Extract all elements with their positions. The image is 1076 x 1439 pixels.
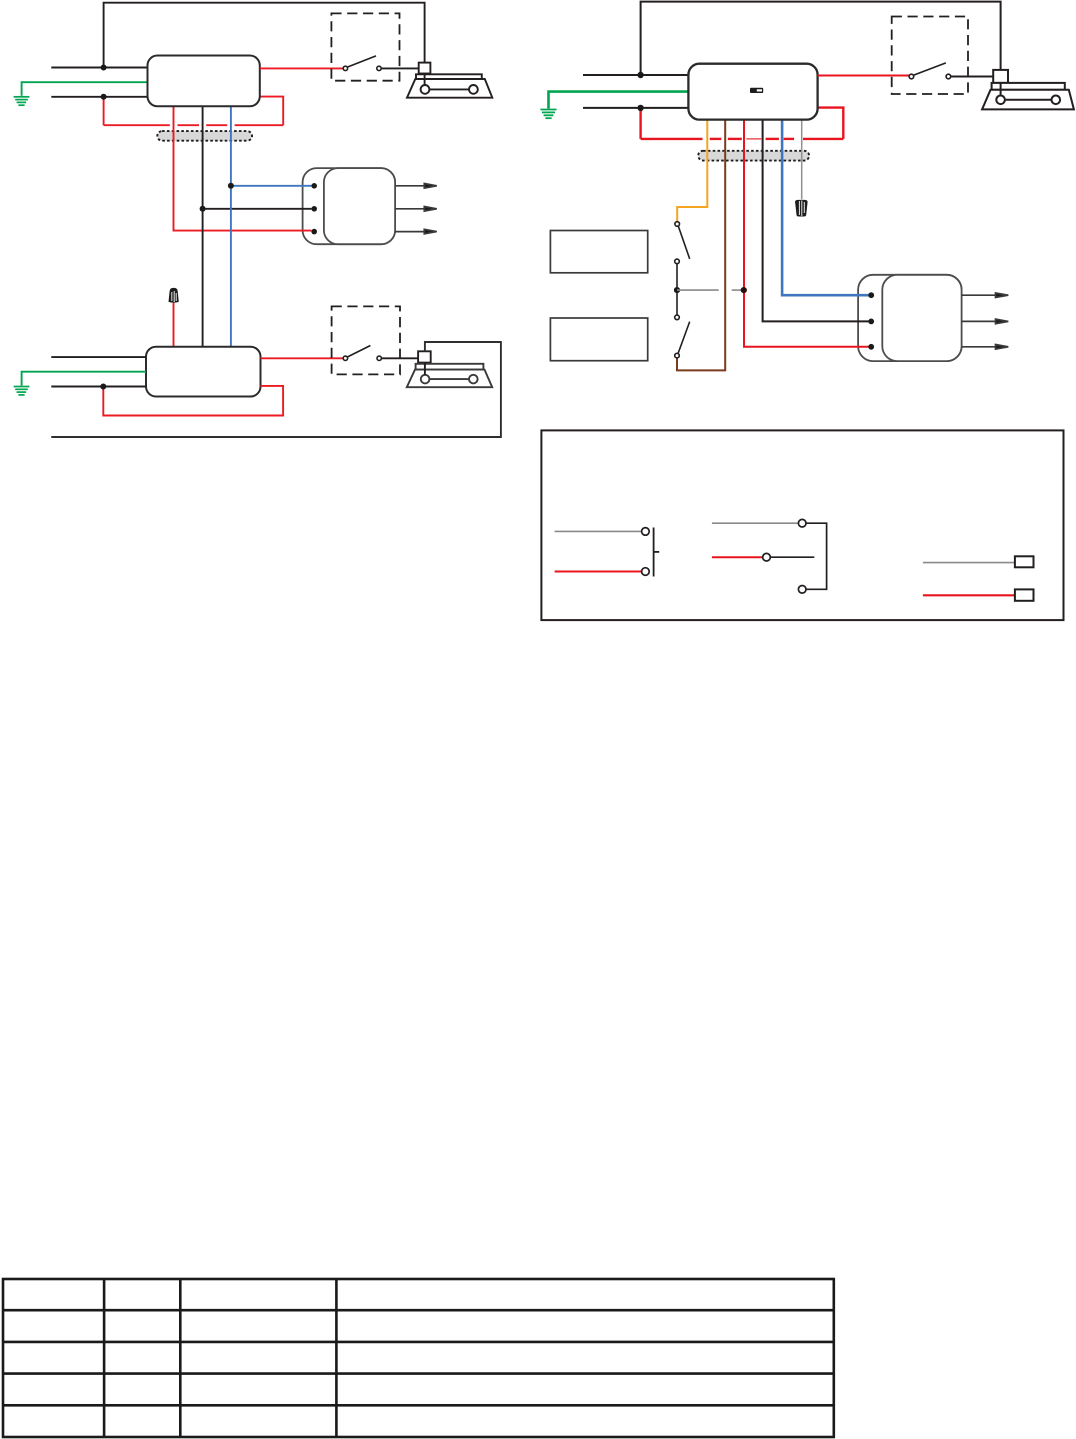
wire L19 red from power unit 2 to wall switch 2	[261, 357, 344, 359]
node B junction dot on neutral	[101, 94, 107, 100]
legend box frame	[541, 430, 1063, 620]
wire L17 black neutral to power unit 2	[51, 386, 146, 388]
node G junction dot on neutral 3	[637, 105, 643, 111]
wire R16 gray connector from link to red riser with gap at brown crossing	[677, 289, 744, 291]
wire R15 black link between SW1 and SW2	[676, 264, 678, 315]
disposer 3 body	[982, 83, 1074, 110]
legend pushbutton bottom terminal	[642, 568, 650, 576]
wiring table row divider 1	[3, 1309, 834, 1312]
disposer 1 body	[407, 74, 492, 97]
legend pushbutton actuator tick	[654, 551, 660, 553]
wire R5 red loop under power unit 3 with crossover gaps	[641, 108, 844, 139]
wire L18 red loop under power unit 2	[103, 386, 283, 416]
ground symbol 3	[540, 110, 556, 119]
disposer 2 junction box	[418, 351, 431, 362]
wire L7 black from power unit 1 down to power unit 2	[202, 106, 204, 346]
wire R9 black from power unit 3 to control unit middle terminal	[763, 120, 869, 322]
power unit 3	[688, 64, 817, 120]
wiring table column divider 1	[103, 1279, 106, 1437]
wire nut 2 on spare lead	[795, 200, 808, 217]
wire L6 red from power unit 1 down to expansion box lower terminal	[174, 106, 312, 230]
arrow out 3 of control unit	[962, 345, 1009, 350]
switch SW2 top contact	[675, 315, 680, 320]
wire nut 1 on unused red lead	[169, 288, 179, 303]
wire R8 red from power unit 3 to control unit bottom terminal	[744, 120, 869, 347]
wire L5 red loop under power unit 1 with crossover gaps	[104, 97, 284, 126]
shielded cable sleeve 1	[157, 131, 252, 141]
legend item 1 existing wire to pushbutton	[555, 530, 642, 532]
wire R13 black from switch S3 to disposer 3 junction box	[951, 76, 994, 78]
switch SW2 bottom contact	[675, 353, 680, 358]
wire R1 black loop from neutral node to disposer 3 junction box	[641, 2, 1001, 75]
wire R2 black line-in to power unit 3	[583, 74, 688, 76]
wiring table row divider 2	[3, 1341, 834, 1344]
label box A	[550, 231, 647, 273]
wire R10 blue from power unit 3 to control unit top terminal	[782, 120, 868, 296]
legend terminal block 2	[1015, 589, 1034, 600]
reset switch icon on power unit 3	[750, 88, 763, 93]
node C junction dot on black riser	[200, 206, 206, 212]
node F junction dot on line-in 3	[637, 72, 643, 78]
wall switch 3 dashed outline	[892, 17, 968, 95]
node E junction dot on neutral 2	[100, 384, 106, 390]
switch S2 contacts and arm	[343, 346, 381, 361]
wire R7 brown from lower switch SW2 back to power unit 3	[677, 120, 725, 371]
wire L20 black from switch S2 to disposer 2 junction box	[381, 357, 418, 359]
wire L14 red stub from wire nut to power unit 2	[173, 303, 175, 347]
wire R3 green ground wire of power unit 3	[549, 92, 689, 109]
wire R12 red from power unit 3 to wall switch 3	[818, 75, 909, 77]
ground symbol 1	[14, 97, 30, 105]
wiring table column divider 3	[335, 1279, 338, 1437]
legend pushbutton actuator bar	[653, 528, 655, 577]
disposer 2 body	[407, 364, 492, 387]
momentary switch SW1 top contact	[675, 222, 680, 227]
legend pushbutton top terminal	[642, 528, 650, 536]
switch SW1 bottom contact	[675, 259, 680, 264]
arrow out 3 of expansion unit 1	[395, 229, 437, 234]
wire L9 blue from power unit 1 down to power unit 2	[230, 106, 232, 346]
wire L11 red from power unit 1 to wall switch 1	[260, 67, 343, 69]
wiring table frame	[3, 1279, 834, 1437]
terminal dots of expansion unit 1	[311, 183, 317, 234]
legend SPDT pole arm	[770, 556, 814, 558]
wire R14 stub from junction box 3 to disposer 3 terminal	[1000, 83, 1002, 96]
wire L15 black line-in to power unit 2	[51, 356, 146, 358]
disposer 3 junction box	[993, 70, 1008, 83]
wire L1 black loop from neutral node to disposer 1 junction box	[104, 3, 425, 68]
legend SPDT bracket	[806, 523, 827, 589]
shielded cable sleeve 2	[698, 151, 809, 161]
expansion unit 1 inner body	[324, 168, 395, 244]
wire L22 stub from junction box 2 to disposer 2 terminal	[424, 363, 426, 375]
ground symbol 2	[14, 387, 30, 395]
wire R4 black neutral to power unit 3	[583, 107, 688, 109]
wire L21 black return loop from junction box 2 around to line side	[51, 342, 501, 437]
terminal dots of control unit	[868, 292, 874, 349]
legend SPDT throw 2 terminal	[798, 586, 806, 594]
wire L3 green ground wire of power unit 1	[22, 82, 148, 96]
wire R11 gray spare lead from power unit 3	[801, 120, 803, 200]
legend terminal block 1	[1015, 556, 1034, 567]
wire L2 black line-in to power unit 1	[51, 67, 147, 69]
legend item 3 new red wire to terminal block	[923, 594, 1015, 596]
wire L12 black from switch S1 to disposer 1 junction box	[381, 67, 419, 69]
node I junction dot on red riser	[741, 287, 747, 293]
legend item 2 existing wire to SPDT throw 1	[712, 522, 799, 524]
wire L13 stub from junction box to disposer 1 terminal	[424, 74, 426, 86]
wiring table row divider 3	[3, 1372, 834, 1375]
wire R6 orange from power unit 3 to momentary switch SW1	[677, 120, 707, 222]
wiring table column divider 2	[179, 1279, 182, 1437]
switch SW1 arm	[678, 226, 689, 259]
disposer 1 junction box	[419, 63, 431, 74]
legend item 1 new red wire to pushbutton	[555, 571, 642, 573]
control unit outer shell	[858, 275, 962, 361]
legend SPDT common terminal	[763, 553, 771, 561]
switch S1 contacts and arm	[343, 56, 381, 71]
node D junction dot on blue riser	[228, 183, 234, 189]
wire L8 black branch to expansion box middle terminal	[203, 208, 312, 210]
switch S3 contacts and arm	[909, 63, 951, 79]
control unit inner body	[882, 275, 961, 361]
wiring table row divider 4	[3, 1404, 834, 1407]
switch SW2 arm	[678, 322, 690, 354]
legend item 3 existing wire to terminal block	[923, 562, 1015, 564]
arrow out 1 of expansion unit 1	[395, 184, 437, 189]
wire L16 green ground wire of power unit 2	[22, 372, 146, 386]
power unit 1	[148, 56, 260, 107]
wire L10 blue branch to expansion box top terminal	[231, 185, 312, 187]
power unit 2	[146, 347, 261, 397]
wall switch 2 dashed outline	[332, 306, 400, 374]
label box B	[550, 318, 647, 361]
arrow out 1 of control unit	[962, 293, 1009, 298]
arrow out 2 of control unit	[962, 319, 1009, 324]
wire L4 black neutral to power unit 1	[51, 96, 147, 98]
expansion unit 1 outer shell	[303, 168, 396, 244]
node H junction dot on link	[674, 287, 680, 293]
arrow out 2 of expansion unit 1	[395, 207, 437, 212]
legend item 2 new red wire to SPDT common	[712, 556, 763, 558]
wall switch 1 dashed outline	[331, 13, 399, 80]
node A junction dot on line-in	[101, 65, 107, 71]
legend SPDT throw 1 terminal	[798, 519, 806, 527]
